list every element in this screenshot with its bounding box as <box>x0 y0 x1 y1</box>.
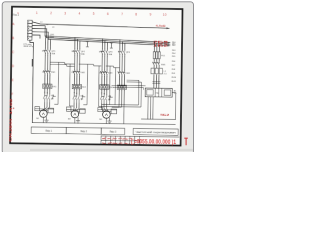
wire N from XT1 <box>32 35 40 38</box>
svg-text:40A: 40A <box>50 36 54 39</box>
converter branch wires <box>154 42 160 88</box>
label box frequency converter <box>133 128 178 135</box>
contactor KM1 <box>43 69 50 75</box>
column reference numbers (red) <box>36 11 167 17</box>
tick cluster above converter <box>153 81 160 83</box>
wire branch4 to pe <box>123 104 125 123</box>
power bus L2 <box>47 38 170 45</box>
svg-text:1Б2: 1Б2 <box>153 44 168 48</box>
svg-text:16A: 16A <box>51 52 55 55</box>
feed wire 2 to converter <box>113 87 143 89</box>
svg-text:7: 7 <box>121 12 123 16</box>
terminal dots <box>28 21 29 38</box>
wire from branch4 down-left <box>112 104 119 107</box>
filter cluster L1 <box>151 68 162 74</box>
thermal relay KK4 <box>117 84 126 90</box>
contactor KM2 <box>73 70 80 76</box>
tap node 2 <box>110 43 112 48</box>
svg-text:Якiр 3: Якiр 3 <box>110 131 117 134</box>
circuit breaker QF3 <box>101 49 108 56</box>
svg-text:6: 6 <box>107 12 109 16</box>
svg-text:10: 10 <box>163 13 167 17</box>
motor M2 <box>71 110 79 118</box>
PE bus wire <box>32 122 175 124</box>
svg-text:Якiр 2: Якiр 2 <box>80 130 87 133</box>
aux box branch 3 <box>111 109 117 114</box>
svg-text:B: B <box>12 36 14 40</box>
contacts KM5 <box>152 61 159 67</box>
power bus L1 <box>45 36 170 43</box>
wire control from XT1 <box>32 22 169 28</box>
svg-text:2: 2 <box>50 11 52 15</box>
branch 1 wires <box>45 36 51 107</box>
svg-text:F: F <box>11 92 13 96</box>
branch 3 wires <box>101 39 107 108</box>
svg-text:док: док <box>112 139 116 141</box>
wires to motor M1 <box>42 107 50 110</box>
red corner mark <box>184 138 188 145</box>
contactor KM4 <box>118 70 125 76</box>
row reference letters (red) <box>11 22 15 96</box>
feed wire to converter <box>112 84 145 86</box>
thermal relay KK2 <box>72 84 81 90</box>
label box motor 3 <box>101 128 125 135</box>
motor M3 <box>103 111 111 119</box>
tie wires between branches <box>50 62 120 67</box>
branch 4 wires <box>119 40 125 105</box>
svg-text:E: E <box>12 78 14 82</box>
wires to motor M2 <box>73 108 79 111</box>
contactor KM3 <box>100 70 107 76</box>
ground motor M1 <box>43 117 48 123</box>
motor hookup wires M2 <box>66 109 85 111</box>
fuses FU1-FU3 <box>153 52 160 59</box>
svg-text:9: 9 <box>149 13 151 17</box>
scan background <box>0 0 196 152</box>
svg-text:8: 8 <box>135 13 137 17</box>
svg-text:14.02: 14.02 <box>9 99 13 115</box>
title block entries (red handwriting) <box>102 139 136 146</box>
red dot note <box>13 107 15 109</box>
svg-text:Частотний перетворювач: Частотний перетворювач <box>136 131 177 135</box>
svg-text:СН.2844: СН.2844 <box>9 117 13 142</box>
aux box branch 1 <box>48 108 54 113</box>
label box motor 2 <box>66 127 101 134</box>
wires below converter <box>141 92 175 119</box>
thermal relay KK1 <box>43 83 52 89</box>
phase labels <box>40 22 55 29</box>
svg-text:1: 1 <box>36 11 38 15</box>
svg-text:5Б2: 5Б2 <box>160 113 170 117</box>
bus end arrows <box>168 42 170 47</box>
aux contacts branch 1 <box>43 94 55 102</box>
ground motor M2 <box>75 118 80 124</box>
motor M1 <box>40 110 48 118</box>
svg-text:KM: KM <box>80 96 83 98</box>
brake rectifier box branch 1 <box>35 107 40 111</box>
wires to motor M3 <box>101 108 108 111</box>
tap node 1 <box>86 42 88 47</box>
drawing sheet frame <box>10 7 182 146</box>
thermal relay KK3 <box>100 84 109 90</box>
svg-text:4: 4 <box>78 12 80 16</box>
ground motor M3 <box>106 118 111 124</box>
svg-text:16A: 16A <box>108 53 112 56</box>
junction dots branch 2 <box>74 92 78 94</box>
wire L1 from XT1 <box>32 26 45 36</box>
label box motor 1 <box>31 127 66 134</box>
svg-text:16A: 16A <box>81 52 85 55</box>
svg-text:( =0055.00.00.000 )1: ( =0055.00.00.000 )1 <box>131 138 176 146</box>
title block <box>101 136 179 146</box>
output bus of converter <box>141 118 175 120</box>
branch 2 wires <box>74 37 80 107</box>
PE label on wire <box>32 59 34 67</box>
aux contacts branch 2 <box>73 94 85 102</box>
junction dots branch 1 <box>44 92 48 94</box>
aux contacts branch 3 <box>100 94 112 102</box>
svg-text:4,5кВ: 4,5кВ <box>156 24 166 28</box>
coil circuit drop wires <box>55 62 116 106</box>
wire destination labels (right margin) <box>171 42 177 83</box>
svg-text:3: 3 <box>64 12 66 16</box>
terminal block XT1 <box>27 20 32 40</box>
circuit breaker QF1 <box>44 48 51 55</box>
brake rectifier box branch 3 <box>98 107 103 111</box>
motor hookup wires M3 <box>98 110 117 112</box>
svg-text:5: 5 <box>93 12 95 16</box>
wires branch4 to converter area <box>102 80 142 107</box>
motor hookup wires M1 <box>35 109 54 111</box>
svg-text:KM: KM <box>51 95 54 97</box>
svg-text:Якiр 1: Якiр 1 <box>45 130 52 133</box>
red signature scribbles <box>103 138 132 144</box>
brake rectifier box branch 2 <box>66 107 71 111</box>
aux box branch 2 <box>80 109 86 114</box>
bottom shadow <box>30 149 193 151</box>
circuit breaker QF2 <box>73 49 80 56</box>
wire PE from XT1 <box>29 40 34 122</box>
circuit breaker QF4 <box>118 49 125 56</box>
wire L3 from XT1 <box>32 32 48 39</box>
junction dots branch 3 <box>101 92 105 94</box>
svg-text:Поз.1: Поз.1 <box>13 14 20 17</box>
frequency converter U1 <box>145 88 172 97</box>
svg-text:380В 50Гц: 380В 50Гц <box>23 46 34 48</box>
wire branch4 center down <box>112 104 122 107</box>
wire L2 from XT1 <box>32 29 47 38</box>
power bus L3 <box>48 39 170 46</box>
